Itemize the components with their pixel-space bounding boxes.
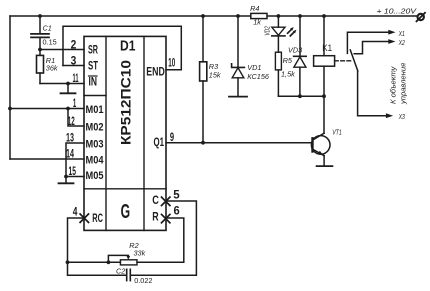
wire: R2 to pin 6 R [137,218,184,262]
dashed mechanical link K1 [335,60,353,62]
node: junction coil/collector [322,94,326,98]
svg-text:ST: ST [88,59,98,73]
svg-text:12: 12 [68,116,75,128]
resistor R3 [202,16,204,62]
svg-text:R: R [152,209,159,223]
svg-text:M05: M05 [86,170,104,182]
svg-text:10: 10 [168,58,175,70]
diode VD3 [299,16,301,56]
svg-text:+ 10...20V: + 10...20V [377,7,418,16]
ground (VD1) [229,96,247,98]
svg-text:11: 11 [73,73,79,85]
wire: R5/VD3/coil bottom to collector [278,95,324,97]
svg-text:14: 14 [66,149,74,161]
capacitor C1 [39,16,41,33]
ground (M03/M05) [59,182,74,184]
pin IN overline [89,75,98,77]
svg-text:K1: K1 [322,43,332,53]
node: junction R3/top rail [201,14,205,18]
resistor R1 [37,55,44,73]
svg-text:9: 9 [170,132,174,144]
node: junction VD2/top rail [277,14,281,18]
wire: END feedback loop pin 10 to SR/ST [63,26,181,70]
relay coil K1 [323,16,325,56]
resistor R5 [277,36,279,52]
svg-text:SR: SR [88,42,98,56]
node: junction K1/top rail [322,14,326,18]
node: junction C1/R1/SR [38,48,42,52]
LED VD2 emission arrows [288,29,292,33]
svg-text:VD2: VD2 [262,26,271,36]
svg-text:2: 2 [71,40,77,52]
IC D1 КР512ПС10 body [84,36,166,230]
wire: C2 left lead [68,262,127,275]
node: junction R2 wiper [107,260,111,264]
svg-text:C: C [152,193,159,207]
wire: pin 15 M05 [66,176,84,178]
svg-text:3: 3 [71,55,77,67]
node: junction VD1/top rail [236,14,240,18]
svg-text:4: 4 [73,207,78,219]
svg-text:RC: RC [92,211,103,225]
wire: left rail (M01/M02/M04 net) [9,16,11,159]
wire: C2 to pin 5 C [131,201,197,275]
capacitor C2 [126,269,128,280]
svg-text:X3: X3 [398,112,405,121]
wire: pin 2 SR [40,49,84,51]
svg-text:END: END [146,65,165,79]
svg-text:D1: D1 [120,37,135,54]
wire: pin 4 RC [68,218,85,262]
resistor R4 [251,13,267,18]
svg-text:X2: X2 [398,38,405,47]
node: junction left rail/M01 [8,107,12,111]
LED VD2 [277,16,279,27]
svg-text:36k: 36k [46,64,58,73]
svg-text:КС156: КС156 [247,72,270,81]
terminal +10...20V [418,14,424,20]
wire: pin 14 M04 [10,158,84,160]
wire: VT1 collector [323,96,325,133]
pin 4 no-connect cross [80,214,88,222]
svg-text:0.15: 0.15 [43,37,57,46]
node: junction R3/Q1 [201,141,205,145]
wire: R2 left lead [68,261,121,263]
svg-text:C1: C1 [43,24,52,33]
svg-text:15k: 15k [209,70,221,79]
wire: pin 3 ST [63,65,84,67]
pin 5 no-connect cross [162,197,170,205]
svg-text:G: G [121,201,131,223]
svg-text:X1: X1 [398,29,405,38]
svg-text:1: 1 [73,98,77,110]
svg-text:КР512ПС10: КР512ПС10 [119,60,134,145]
svg-text:К объектууправления: К объектууправления [389,63,408,105]
svg-text:5: 5 [173,189,180,201]
svg-text:M02: M02 [86,121,104,133]
svg-text:15: 15 [69,166,77,178]
switch arm K1.1 [350,50,358,71]
ground (pin 11) [67,84,69,94]
wire: pin 12 M02 [68,109,84,127]
resistor R2 (trimmer) [120,260,137,265]
wire: pin 11 IN [40,83,84,85]
node: junction VD3/top rail [298,14,302,18]
svg-text:R5: R5 [283,56,293,65]
svg-text:M04: M04 [86,154,105,166]
ground (VT1 emitter) [317,165,333,167]
svg-text:6: 6 [174,206,180,218]
node: junction IN/ground [66,82,70,86]
node: junction C1/top rail [38,14,42,18]
svg-text:M01: M01 [86,104,104,116]
switch contact X2 (NO) [354,42,388,54]
node: junction VD3/collector wire [298,94,302,98]
node: junction M01/M02 [66,107,70,111]
transistor VT1 [311,136,330,155]
zener diode VD1 [237,16,239,67]
svg-text:0.022: 0.022 [134,276,152,285]
svg-text:R4: R4 [250,4,259,13]
svg-text:M03: M03 [86,138,104,150]
wire: pin 13 M03 [66,143,84,183]
svg-text:1,5k: 1,5k [281,69,295,78]
svg-text:VT1: VT1 [332,128,342,137]
wire: pin 1 M01 [10,108,84,110]
svg-text:VD3: VD3 [288,45,302,54]
wire: common to X3 [358,71,387,116]
wire: R2 wiper arm [108,255,128,262]
wire: pin 9 Q1 to VT1 base [166,142,312,144]
node: junction RC/R2/C2 [66,260,70,264]
wire: +V top rail [10,15,417,17]
node: junction M05/ground [64,175,68,179]
svg-text:33k: 33k [134,248,146,257]
svg-text:13: 13 [66,133,74,145]
pin 6 no-connect cross [162,214,170,222]
svg-text:C2: C2 [116,267,125,276]
svg-text:Q1: Q1 [154,135,165,149]
svg-text:IN: IN [89,75,98,89]
switch contact X1 (NC) [347,32,388,53]
